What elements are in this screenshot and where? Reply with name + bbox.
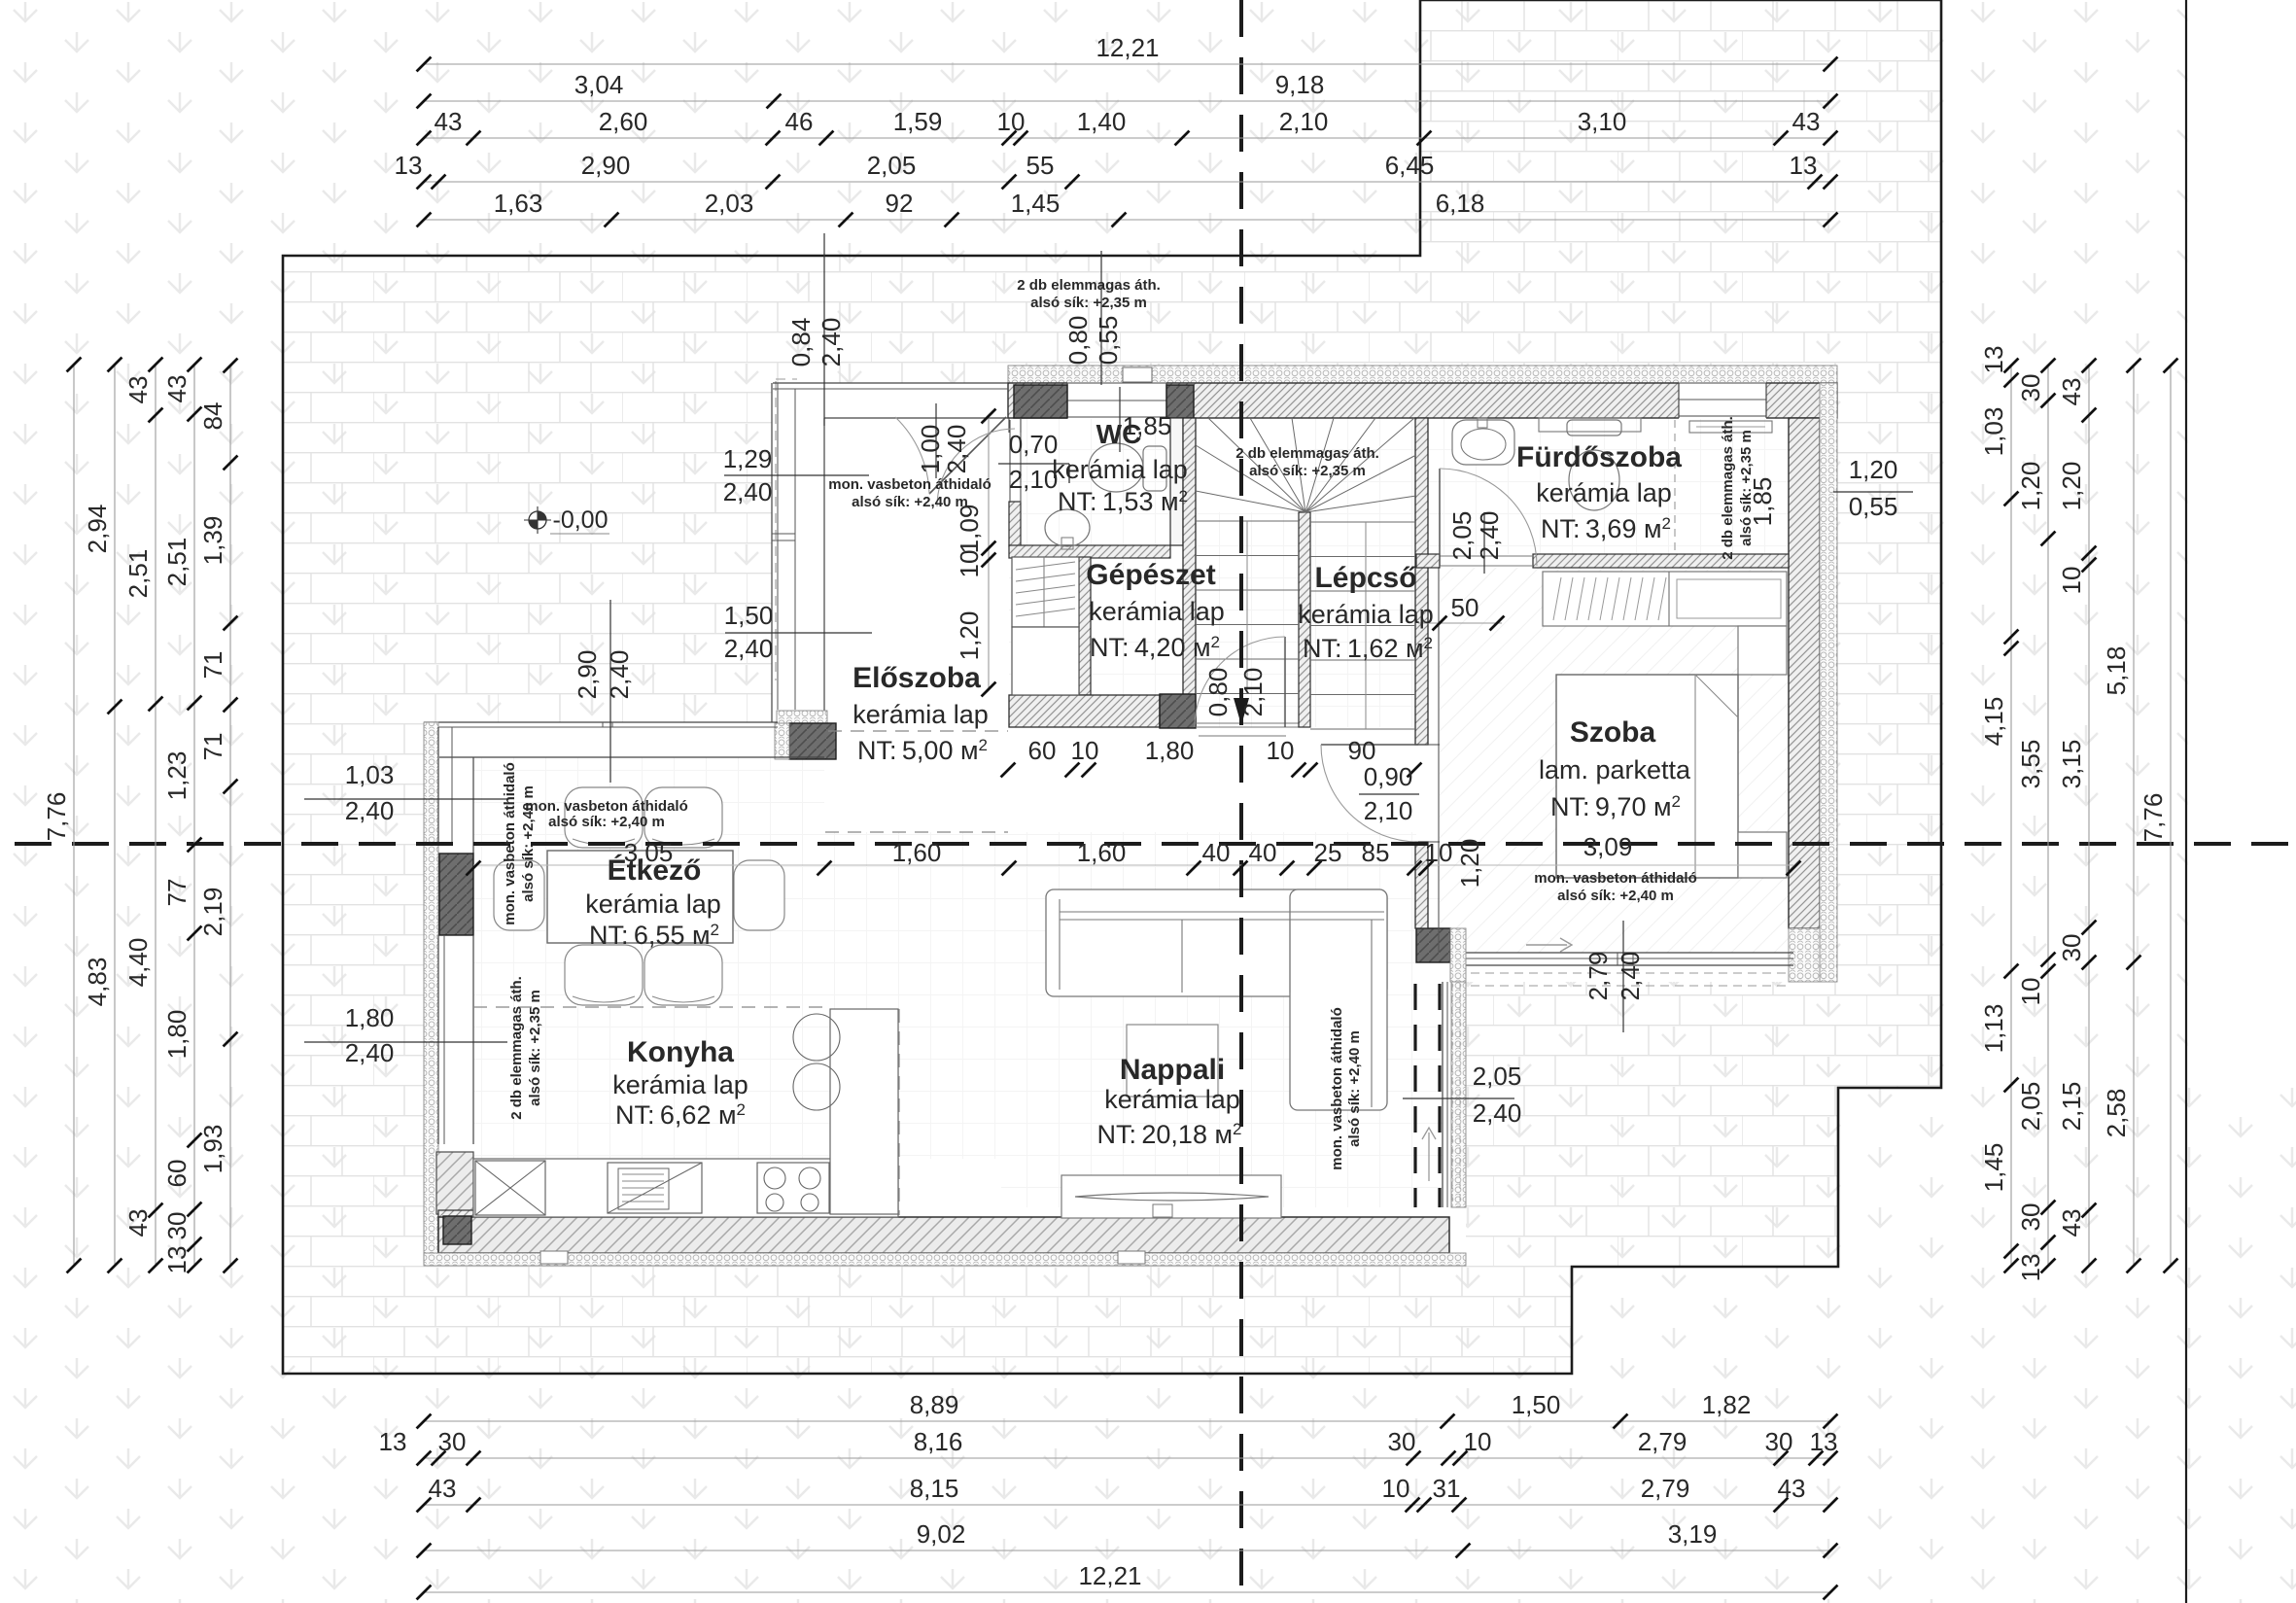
Szoba west inner face line [1438,568,1440,953]
washing machine [1689,421,1772,433]
svg-text:30: 30 [1388,1427,1416,1456]
svg-text:4,15: 4,15 [1979,697,2008,747]
top dimension row 1 (12,21) [424,63,1830,65]
south wall insulation band [424,1253,1466,1266]
top dimension row 4 [424,181,1830,183]
Szoba laminate floor texture [1440,568,1789,953]
WC window opening in north wall [1067,382,1166,419]
level marker -0,00 [529,511,546,529]
svg-text:alsó sík: +2,35 m: alsó sík: +2,35 m [1249,463,1366,479]
svg-text:30: 30 [162,1212,191,1240]
WC toilet bowl [1089,443,1143,492]
svg-text:2,40: 2,40 [345,796,395,825]
masonry pier west wall (lower) [436,1152,473,1214]
west block north glazing band [424,721,778,723]
bathroom sink [1452,420,1514,465]
concrete column SW corner [443,1216,471,1244]
svg-text:1,39: 1,39 [198,516,227,566]
stair threshold at hall [1199,726,1286,728]
entry door 1,00/2,40 rotated [935,403,937,478]
svg-text:1,82: 1,82 [1702,1390,1752,1419]
svg-text:5,18: 5,18 [2102,646,2131,696]
svg-text:50: 50 [1451,593,1479,622]
svg-text:43: 43 [435,107,463,136]
svg-text:10: 10 [997,107,1026,136]
kitchen counter along south wall [473,1159,898,1217]
svg-text:13: 13 [379,1427,407,1456]
svg-text:1,20: 1,20 [1849,455,1898,484]
svg-text:1,20: 1,20 [1455,839,1484,889]
svg-text:10: 10 [1071,736,1099,765]
Szoba wardrobe [1543,572,1787,626]
svg-text:Étkező: Étkező [608,854,702,887]
svg-text:10: 10 [1382,1474,1410,1503]
bed [1556,675,1738,878]
left dimension chain 1 (7,76) [73,365,75,1266]
right dimension chain 5 [2170,366,2172,1266]
top dimension row 5 [424,219,1830,221]
svg-text:Szoba: Szoba [1570,716,1656,749]
Gepeszet door leaf [1284,637,1286,727]
svg-text:-0,00: -0,00 [553,506,609,534]
east wall insulation strip [1820,383,1837,982]
svg-text:12,21: 12,21 [1078,1561,1141,1590]
bottom dimension row 4 [424,1550,1830,1551]
laundry niche divider (dashed) [1674,420,1676,552]
svg-text:2,90: 2,90 [581,151,631,180]
left dimension chain 3 [155,365,157,1266]
svg-text:2 db elemmagas áth.: 2 db elemmagas áth. [1720,416,1736,560]
svg-text:43: 43 [429,1474,457,1503]
north wall insulation strip [1008,366,1837,383]
insulation + column at entry west wall foot [777,711,827,724]
svg-text:1,00: 1,00 [916,425,945,474]
chairs around table [565,787,643,848]
svg-text:10: 10 [1425,838,1453,867]
entry door width 0,84/2,40 rotated [823,233,825,426]
svg-text:60: 60 [162,1160,191,1188]
stove with 4 burners [757,1163,829,1213]
svg-text:1,59: 1,59 [893,107,943,136]
svg-text:7,76: 7,76 [2139,793,2168,843]
svg-text:Előszoba: Előszoba [852,662,981,694]
svg-text:WC: WC [1096,419,1142,449]
nightstand 2 [1738,832,1787,878]
stair hall / Szoba dividing wall upper part [1415,418,1428,745]
WC door swing [937,429,1015,506]
svg-text:mon. vasbeton áthidaló: mon. vasbeton áthidaló [828,476,991,493]
svg-text:2,40: 2,40 [723,477,773,506]
svg-text:2,05: 2,05 [867,151,917,180]
svg-text:13: 13 [2016,1254,2045,1282]
interior dimension row under axis [467,861,481,876]
svg-text:1,03: 1,03 [345,760,395,789]
svg-text:2,05: 2,05 [1447,511,1477,561]
svg-text:1,60: 1,60 [1077,838,1127,867]
svg-text:6,45: 6,45 [1385,151,1435,180]
stair lower flight treads (left) [1196,520,1299,522]
svg-text:Nappali: Nappali [1120,1054,1225,1086]
hall floor-change dashed line [828,730,1008,732]
bathroom sliding door 2,05/2,40 rotated [1483,512,1485,574]
svg-text:30: 30 [2016,374,2045,402]
svg-text:alsó sík: +2,40 m: alsó sík: +2,40 m [1557,888,1674,904]
svg-text:25: 25 [1314,838,1342,867]
svg-text:30: 30 [1765,1427,1793,1456]
svg-text:9,02: 9,02 [917,1519,966,1549]
bathroom door threshold lines [1440,555,1533,557]
svg-text:2,79: 2,79 [1638,1427,1687,1456]
svg-text:NT: 1,62 м2: NT: 1,62 м2 [1303,634,1433,663]
stairwell west wall [1183,418,1196,727]
svg-text:0,55: 0,55 [1849,492,1898,521]
svg-text:NT: 20,18 м2: NT: 20,18 м2 [1096,1120,1241,1149]
svg-text:8,15: 8,15 [910,1474,959,1503]
svg-text:10: 10 [2057,567,2086,595]
svg-text:1,80: 1,80 [1145,736,1195,765]
sofa back/cushion lines [1060,911,1384,913]
entry door swing arc [895,417,929,494]
svg-text:2,40: 2,40 [345,1038,395,1067]
svg-text:1,93: 1,93 [198,1125,227,1174]
entry west wall window band [771,383,773,722]
stair winder fan [1196,491,1305,512]
Gepeszet shaft partition [1079,557,1091,695]
bathroom toilet [1569,450,1619,510]
svg-text:13: 13 [1979,346,2008,374]
svg-text:46: 46 [785,107,814,136]
left dimension chain 4 [193,365,195,1266]
svg-text:1,20: 1,20 [955,611,984,661]
plot boundary right edge [2185,0,2187,1603]
hall-Szoba door jamb lines [1418,744,1440,746]
svg-text:Konyha: Konyha [627,1036,734,1068]
svg-text:kerámia lap: kerámia lap [1298,600,1434,629]
svg-text:NT: 6,55 м2: NT: 6,55 м2 [589,921,719,950]
svg-text:mon. vasbeton áthidaló: mon. vasbeton áthidaló [502,762,518,925]
house footprint floor (white) [424,366,1837,1264]
interior dimension row line [473,864,1793,866]
svg-text:13: 13 [395,151,423,180]
svg-text:1,40: 1,40 [1077,107,1127,136]
svg-text:60: 60 [1028,736,1057,765]
sliding door direction arrow [1428,1133,1430,1181]
svg-text:43: 43 [123,376,153,404]
dining table [547,851,733,943]
svg-text:Gépészet: Gépészet [1086,559,1215,591]
svg-text:2,10: 2,10 [1238,668,1268,717]
svg-text:kerámia lap: kerámia lap [612,1070,748,1099]
west wall base to south corner [438,1210,473,1254]
svg-text:1,63: 1,63 [494,189,543,218]
stair flight mid lines [1365,522,1367,729]
fridge with X [475,1161,545,1215]
svg-text:6,18: 6,18 [1436,189,1485,218]
WC window 0,80/0,55 rotated [1100,251,1102,385]
svg-text:3,19: 3,19 [1668,1519,1718,1549]
stair hall / Szoba dividing wall lower part [1415,842,1428,928]
svg-text:71: 71 [198,651,227,680]
svg-text:55: 55 [1026,151,1055,180]
svg-text:30: 30 [2057,934,2086,962]
svg-text:30: 30 [438,1427,467,1456]
hall-Nappali dashed boundary [825,831,1008,833]
svg-text:1,60: 1,60 [892,838,942,867]
svg-text:3,15: 3,15 [2057,740,2086,789]
svg-text:2,79: 2,79 [1583,952,1613,1001]
svg-text:4,83: 4,83 [83,958,112,1007]
svg-text:2,10: 2,10 [1009,465,1059,494]
svg-text:1,50: 1,50 [1512,1390,1561,1419]
svg-text:1,23: 1,23 [162,751,191,801]
svg-text:1,45: 1,45 [1979,1143,2008,1193]
svg-text:2,40: 2,40 [605,650,634,700]
svg-text:1,13: 1,13 [1979,1004,2008,1054]
WC south wall [1009,545,1170,558]
svg-text:1,03: 1,03 [1979,407,2008,457]
svg-text:12,21: 12,21 [1096,33,1159,62]
plot / paved terrace area (brick paving) [283,0,1941,1374]
coffee table [1127,1025,1218,1097]
svg-text:43: 43 [2057,1209,2086,1237]
svg-text:30: 30 [2016,1203,2045,1232]
left dimension chain 5 [229,366,231,1266]
svg-text:71: 71 [198,733,227,761]
svg-text:43: 43 [1778,1474,1806,1503]
svg-text:10: 10 [2016,978,2045,1006]
svg-text:1,80: 1,80 [162,1010,191,1060]
svg-text:NT: 9,70 м2: NT: 9,70 м2 [1550,792,1681,821]
top dimension row 3 [424,137,1830,139]
WC 1,85 dim [1119,387,1121,452]
svg-text:alsó sík: +2,35 m: alsó sík: +2,35 m [1738,430,1755,546]
WC door leaf in partition [1009,420,1011,503]
svg-text:NT: 5,00 м2: NT: 5,00 м2 [857,736,988,765]
svg-text:mon. vasbeton áthidaló: mon. vasbeton áthidaló [1534,870,1697,887]
nightstand 1 [1738,626,1787,675]
svg-text:alsó sík: +2,35 m: alsó sík: +2,35 m [527,990,543,1106]
svg-text:31: 31 [1433,1474,1461,1503]
TV [1075,1193,1269,1201]
svg-text:9,18: 9,18 [1275,70,1325,99]
svg-text:lam. parketta: lam. parketta [1539,755,1691,784]
svg-text:alsó sík: +2,40 m: alsó sík: +2,40 m [1346,1030,1363,1147]
kitchen dashed zone boundary [473,1006,830,1008]
SE corner insulation below east wall [1789,928,1820,982]
horizontal axis dashed line [15,842,2296,846]
WC window vent box on insulation [1123,367,1152,382]
svg-text:2,40: 2,40 [1616,952,1645,1001]
bottom dimension row 2 [424,1457,1830,1459]
svg-text:2,03: 2,03 [705,189,754,218]
svg-text:0,90: 0,90 [1364,762,1413,791]
svg-text:1,45: 1,45 [1011,189,1061,218]
svg-text:2,51: 2,51 [162,538,191,587]
svg-text:10: 10 [1464,1427,1492,1456]
sofa body [1046,889,1387,996]
svg-text:Lépcső: Lépcső [1314,562,1416,594]
svg-text:7,76: 7,76 [42,792,71,842]
Gepeszet door threshold [1196,722,1299,724]
entry west wall lintel dashed [775,381,777,680]
svg-text:NT: 1,53 м2: NT: 1,53 м2 [1058,487,1188,516]
vertical axis dashed line [1239,0,1243,1603]
svg-text:kerámia lap: kerámia lap [1536,478,1672,507]
svg-text:0,80: 0,80 [1063,316,1093,366]
svg-text:2,79: 2,79 [1641,1474,1690,1503]
bathroom window opening in north wall [1679,382,1766,419]
svg-text:NT: 3,69 м2: NT: 3,69 м2 [1541,514,1671,543]
svg-text:2 db elemmagas áth.: 2 db elemmagas áth. [508,976,525,1120]
bottom dimension row 1 [424,1420,1830,1422]
concrete column south of stair [1160,694,1196,728]
svg-text:2,05: 2,05 [2016,1082,2045,1132]
svg-text:3,09: 3,09 [1583,832,1633,861]
svg-text:3,10: 3,10 [1578,107,1627,136]
svg-text:2,19: 2,19 [198,888,227,937]
entry north glazing frame lines [773,382,1008,384]
svg-text:43: 43 [162,375,191,403]
concrete column north wall beside entry [1014,385,1067,418]
west wall upper window (1.03) [437,727,439,846]
Gepeszet door swing [1195,637,1285,727]
svg-text:40: 40 [1202,838,1231,867]
right dimension chain 4 [2133,366,2135,1266]
svg-text:10: 10 [1267,736,1295,765]
svg-text:3,55: 3,55 [2016,740,2045,789]
bathroom door swing [1440,469,1537,566]
svg-text:1,09: 1,09 [955,505,984,554]
sofa chaise [1290,889,1387,1110]
svg-text:mon. vasbeton áthidaló: mon. vasbeton áthidaló [525,798,688,815]
svg-text:Fürdőszoba: Fürdőszoba [1516,441,1682,473]
Szoba south window band [1464,952,1793,954]
svg-text:2,05: 2,05 [1473,1062,1522,1091]
svg-text:2,40: 2,40 [1475,511,1504,561]
svg-text:kerámia lap: kerámia lap [1052,455,1188,484]
Gepeszet shaft with louvres [1012,557,1079,627]
concrete column west wall (upper) [439,854,473,935]
svg-text:2,40: 2,40 [1473,1098,1522,1128]
WC east wall [1170,418,1183,545]
svg-text:2,51: 2,51 [123,549,153,599]
west wall kitchen window (1.80) [437,935,439,1144]
Fuerdoszoba south wall (hatched) with door gap [1416,554,1440,568]
right dimension chain 2 [2047,366,2049,1266]
WC west partition lower part [1009,502,1021,546]
sliding door dashed travel lines [1413,984,1416,1207]
Gepeszet south wall [1009,695,1160,727]
right dimension chain 1 [2010,366,2012,1266]
south wall vent boxes [540,1251,568,1264]
svg-text:90: 90 [1348,736,1376,765]
svg-text:2,40: 2,40 [724,634,774,663]
svg-text:1,20: 1,20 [2057,462,2086,511]
thin dashed jamb lines [1451,984,1453,1207]
window dim 2,90/2,40 rotated [609,600,611,783]
svg-text:3,04: 3,04 [574,70,624,99]
stair descent arrow on axis [1234,698,1249,725]
svg-text:13: 13 [162,1246,191,1274]
WC hand basin [1045,509,1090,546]
stair flight treads (right) [1310,521,1415,523]
svg-text:85: 85 [1362,838,1390,867]
south wall masonry band [438,1217,1449,1253]
svg-text:2,58: 2,58 [2102,1089,2131,1138]
svg-text:43: 43 [123,1209,153,1237]
svg-text:kerámia lap: kerámia lap [852,700,989,729]
white margin right of plot boundary [2188,0,2296,1088]
svg-text:2 db elemmagas áth.: 2 db elemmagas áth. [1235,445,1379,462]
right dimension chain 3 [2088,366,2090,1266]
svg-text:1,29: 1,29 [723,444,773,473]
entry west window transom marks [772,533,795,535]
west wall insulation [424,722,438,1264]
svg-text:kerámia lap: kerámia lap [1104,1085,1240,1114]
svg-text:2,60: 2,60 [599,107,648,136]
bottom dimension row 3 [424,1504,1830,1506]
Szoba south window lintel (dashed) [1471,972,1787,974]
kitchen peninsula [830,1009,898,1214]
svg-text:2,10: 2,10 [1279,107,1329,136]
svg-text:77: 77 [162,879,191,907]
concrete column SW of Szoba [1416,928,1450,962]
WC partition jamb top [1008,418,1010,433]
svg-text:NT: 4,20 м2: NT: 4,20 м2 [1090,633,1220,662]
hall-Szoba door leaf [1321,744,1418,746]
entry door leaf [929,417,1006,494]
left dimension chain 2 [114,365,116,1266]
svg-text:2,90: 2,90 [573,650,602,700]
Nappali east wall glazing (terrace sliding door) [1442,982,1444,1207]
svg-text:1,80: 1,80 [345,1003,395,1032]
svg-text:1,20: 1,20 [2016,462,2045,511]
svg-text:NT: 6,62 м2: NT: 6,62 м2 [615,1100,746,1130]
svg-text:0,55: 0,55 [1094,316,1123,366]
svg-text:2,94: 2,94 [83,505,112,554]
Szoba window 2,79/2,40 rotated [1622,921,1624,1032]
svg-text:10: 10 [955,550,984,578]
concrete column north wall at WC east [1166,385,1194,418]
svg-text:13: 13 [1810,1427,1838,1456]
svg-text:alsó sík: +2,40 m: alsó sík: +2,40 m [548,814,665,830]
stair central stringer wall [1299,512,1310,727]
svg-text:43: 43 [2057,378,2086,406]
svg-text:84: 84 [198,402,227,431]
top dimension row 2 (3,04 / 9,18) [424,100,1830,102]
svg-text:1,50: 1,50 [724,601,774,630]
svg-text:0,80: 0,80 [1203,668,1233,717]
WC toilet tank [1143,446,1166,491]
svg-text:8,16: 8,16 [914,1427,963,1456]
svg-text:2,40: 2,40 [942,425,971,474]
svg-text:2,10: 2,10 [1364,796,1413,825]
svg-text:mon. vasbeton áthidaló: mon. vasbeton áthidaló [1329,1007,1345,1170]
svg-text:2 db elemmagas áth.: 2 db elemmagas áth. [1017,277,1161,294]
hall dimension row [1001,763,1016,778]
bathroom door leaf [1439,469,1441,566]
hall-Szoba door swing [1321,745,1418,842]
svg-text:kerámia lap: kerámia lap [585,889,721,919]
TV bench [1061,1175,1281,1218]
bottom dimension row 5 [424,1591,1830,1593]
svg-text:4,40: 4,40 [123,938,153,988]
svg-text:alsó sík: +2,40 m: alsó sík: +2,40 m [852,494,968,510]
svg-text:43: 43 [1792,107,1821,136]
svg-text:0,70: 0,70 [1009,430,1059,459]
svg-text:13: 13 [1790,151,1818,180]
east wall masonry of Szoba [1789,418,1820,928]
